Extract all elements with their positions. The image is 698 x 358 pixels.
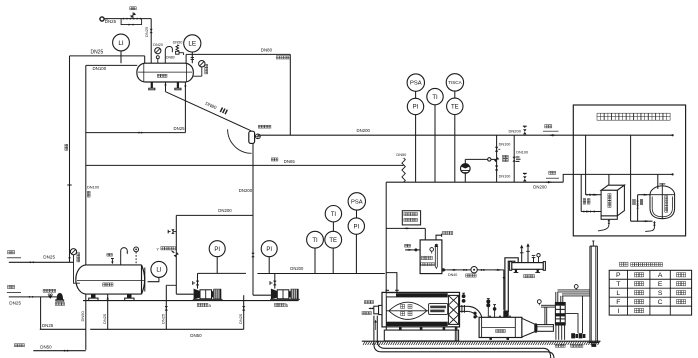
svg-text:DN200: DN200 [509, 128, 522, 133]
svg-text:F: F [616, 299, 620, 306]
svg-text:DN25: DN25 [105, 19, 117, 24]
svg-text:DN80: DN80 [166, 56, 175, 60]
svg-text:I: I [617, 308, 619, 315]
svg-text:DN50: DN50 [396, 152, 407, 157]
svg-text:S: S [658, 290, 663, 297]
svg-text:DN25: DN25 [42, 323, 54, 328]
svg-text:DN100: DN100 [499, 143, 511, 147]
svg-text:TE: TE [451, 104, 459, 110]
svg-text:TI: TI [432, 95, 438, 101]
svg-text:PI: PI [214, 247, 220, 253]
svg-text:DN50: DN50 [80, 310, 85, 321]
svg-text:DN200: DN200 [533, 185, 547, 190]
svg-text:DN100: DN100 [499, 174, 511, 178]
svg-text:PI: PI [266, 247, 272, 253]
svg-text:TI: TI [331, 212, 337, 218]
svg-text:DN200: DN200 [357, 128, 371, 133]
svg-text:DN25: DN25 [9, 300, 21, 305]
svg-text:T: T [616, 281, 620, 288]
svg-text:DN40: DN40 [448, 273, 457, 277]
svg-text:DN50: DN50 [40, 345, 52, 350]
svg-text:DN100: DN100 [93, 66, 107, 71]
svg-text:P: P [616, 272, 621, 279]
svg-text:PSA: PSA [351, 199, 363, 205]
svg-text:DN50: DN50 [190, 333, 202, 338]
svg-text:DN65: DN65 [284, 159, 296, 164]
svg-text:LI: LI [118, 40, 124, 47]
svg-text:LI: LI [156, 267, 161, 274]
svg-text:DN50: DN50 [173, 41, 183, 45]
svg-text:C: C [658, 299, 663, 306]
svg-text:PI: PI [353, 224, 359, 230]
svg-text:TE: TE [329, 238, 337, 244]
svg-text:TI: TI [312, 238, 318, 244]
svg-text:DN100: DN100 [516, 150, 528, 154]
svg-text:A: A [658, 272, 663, 279]
svg-text:DN25: DN25 [102, 313, 107, 324]
svg-text:TISCA: TISCA [448, 80, 462, 85]
svg-text:E: E [658, 281, 663, 288]
svg-text:PI: PI [413, 105, 419, 111]
svg-text:L: L [616, 290, 620, 297]
svg-text:DN25: DN25 [238, 313, 243, 324]
svg-text:DN200: DN200 [290, 266, 304, 271]
svg-text:DN20: DN20 [153, 43, 163, 47]
svg-text:PSA: PSA [410, 81, 422, 87]
svg-text:DN25: DN25 [161, 313, 166, 324]
svg-text:Y: Y [156, 246, 159, 251]
svg-text:DN200: DN200 [239, 188, 253, 193]
svg-text:DN80: DN80 [261, 48, 273, 53]
svg-text:LE: LE [188, 41, 196, 48]
svg-text:DN25: DN25 [91, 49, 104, 55]
svg-text:DN25: DN25 [43, 254, 55, 259]
svg-text:DN200: DN200 [218, 208, 232, 213]
svg-text:DN100: DN100 [87, 184, 100, 189]
svg-text:DN25: DN25 [144, 26, 149, 37]
svg-text:DN25: DN25 [174, 126, 186, 131]
